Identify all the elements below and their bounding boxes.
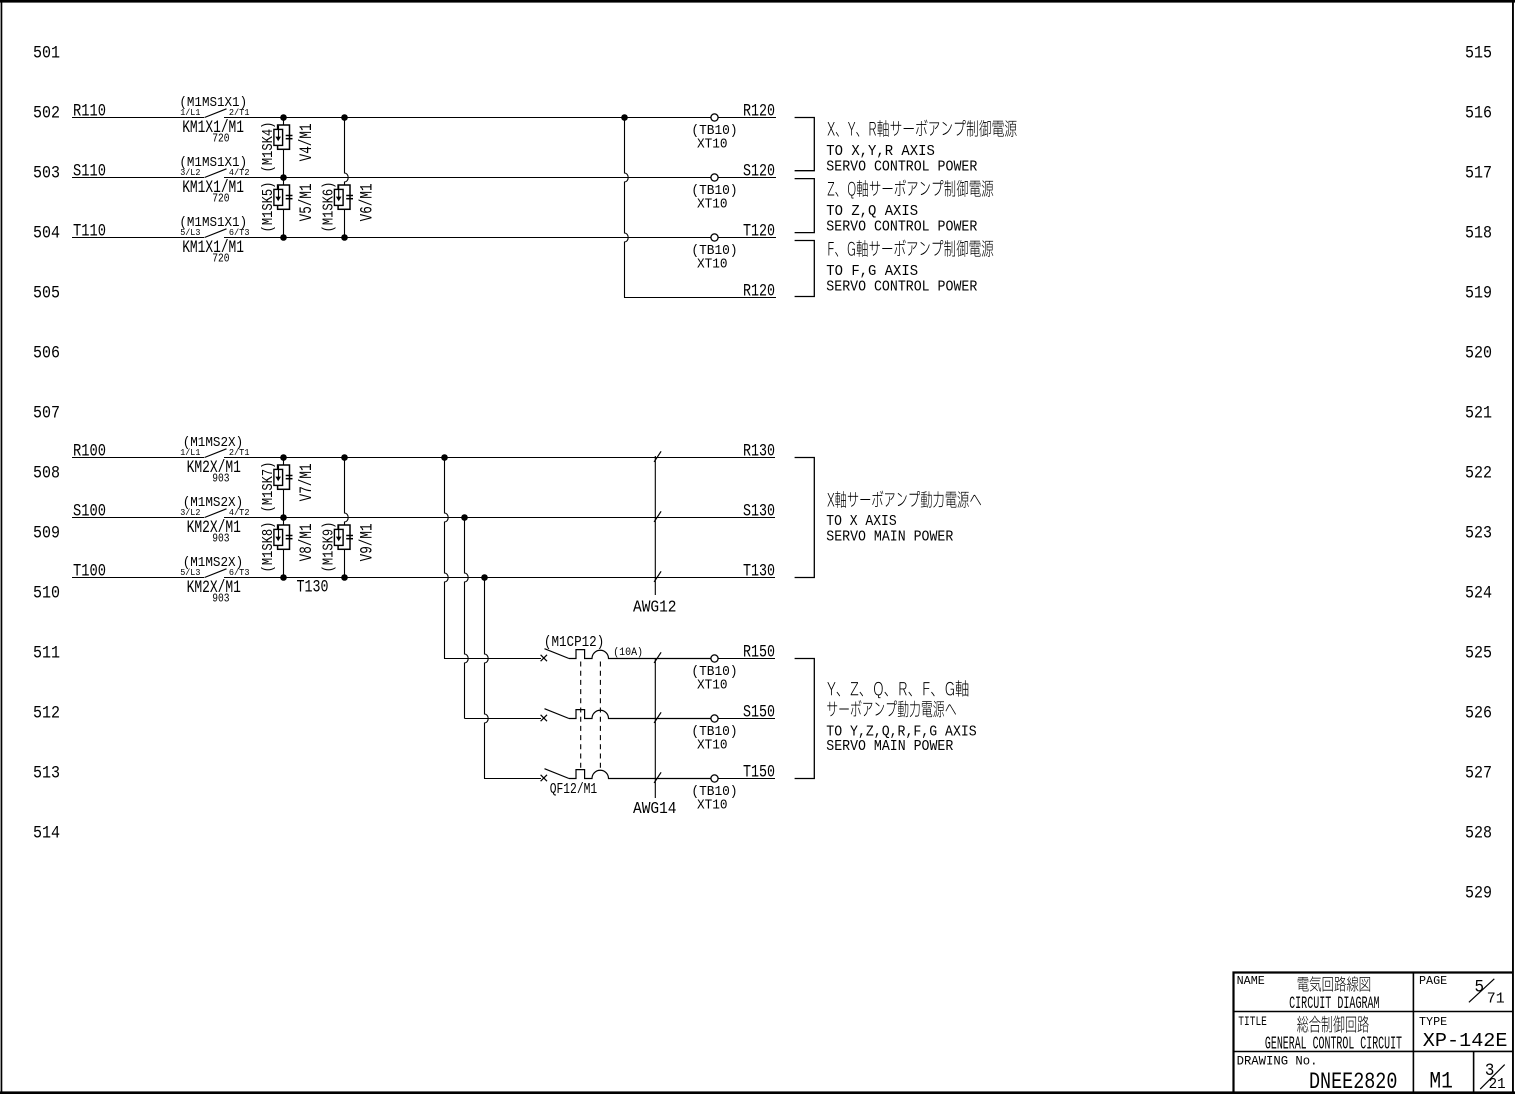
junction T100-V9 xyxy=(341,574,348,581)
wire S100 branch down to S150 xyxy=(465,518,469,719)
wire S100 to S130 xyxy=(72,503,775,522)
junction T100-T150 xyxy=(481,574,488,581)
svg-text:525: 525 xyxy=(1465,644,1492,664)
svg-text:TITLE: TITLE xyxy=(1238,1015,1267,1029)
svg-text:903: 903 xyxy=(212,473,229,486)
svg-text:AWG12: AWG12 xyxy=(633,598,677,617)
note F,G axis servo control power xyxy=(826,240,993,296)
svg-text:TO X,Y,R AXIS: TO X,Y,R AXIS xyxy=(826,143,935,160)
svg-text:V4/M1: V4/M1 xyxy=(298,123,317,161)
svg-text:521: 521 xyxy=(1465,404,1492,424)
wire T100 branch down to T150 xyxy=(485,578,489,779)
note X axis servo main power xyxy=(826,491,981,546)
wire R100 branch down to R150 xyxy=(445,458,449,659)
svg-text:XT10: XT10 xyxy=(697,137,728,153)
svg-text:522: 522 xyxy=(1465,464,1492,484)
junction R100-V9 xyxy=(341,454,348,461)
contactor contact KM2X/M1 pins 5/L3-6/T3 xyxy=(180,555,249,606)
svg-text:R120: R120 xyxy=(743,103,775,122)
svg-text:XT10: XT10 xyxy=(697,738,728,754)
junction S110-V4V5 xyxy=(280,174,287,181)
svg-text:T110: T110 xyxy=(73,223,106,242)
svg-text:S130: S130 xyxy=(743,503,775,522)
svg-text:XT10: XT10 xyxy=(697,257,728,273)
svg-text:PAGE: PAGE xyxy=(1419,974,1447,988)
breaker mechanical linkage dashed xyxy=(581,662,601,771)
svg-text:V8/M1: V8/M1 xyxy=(298,523,317,561)
wire T150 xyxy=(484,764,775,783)
svg-text:XT10: XT10 xyxy=(697,197,728,213)
svg-text:501: 501 xyxy=(33,44,60,64)
svg-text:508: 508 xyxy=(33,464,60,484)
svg-text:507: 507 xyxy=(33,404,60,424)
svg-text:(M1SK8): (M1SK8) xyxy=(261,522,277,573)
svg-text:R110: R110 xyxy=(73,103,106,122)
svg-text:R130: R130 xyxy=(743,443,775,462)
circuit breaker pole S xyxy=(541,709,711,722)
svg-text:511: 511 xyxy=(33,644,60,664)
surge suppressor M1SK6 / V6/M1 xyxy=(322,118,378,238)
svg-text:515: 515 xyxy=(1465,44,1492,64)
svg-text:T150: T150 xyxy=(743,764,775,783)
svg-text:V9/M1: V9/M1 xyxy=(359,523,378,561)
surge suppressor M1SK7 / V7/M1 xyxy=(261,457,317,517)
title block DRAWING No. cell DNEE2820 xyxy=(1237,1054,1398,1094)
svg-text:720: 720 xyxy=(212,193,229,206)
svg-text:R100: R100 xyxy=(73,443,106,462)
svg-text:513: 513 xyxy=(33,764,60,784)
title block frame xyxy=(1233,972,1512,1093)
contactor contact KM1X1/M1 pins 1/L1-2/T1 xyxy=(179,95,249,146)
svg-text:3/L2: 3/L2 xyxy=(180,167,200,178)
svg-text:2/T1: 2/T1 xyxy=(229,447,250,458)
svg-text:720: 720 xyxy=(212,133,229,146)
svg-text:505: 505 xyxy=(33,284,60,304)
svg-text:1/L1: 1/L1 xyxy=(180,107,201,118)
svg-text:TO X AXIS: TO X AXIS xyxy=(826,513,896,530)
svg-text:DNEE2820: DNEE2820 xyxy=(1309,1069,1397,1094)
svg-text:2/T1: 2/T1 xyxy=(229,107,250,118)
bracket X,Y,R axis group xyxy=(795,118,815,171)
bracket Z,Q axis group xyxy=(795,179,815,233)
wire R100 to R130 xyxy=(72,443,775,462)
svg-text:R120: R120 xyxy=(743,283,775,302)
wire T110 to T120 xyxy=(72,223,776,242)
svg-text:S110: S110 xyxy=(73,163,106,182)
terminal XT10 (TB10) xyxy=(691,655,737,694)
junction T100-V8 xyxy=(280,574,287,581)
contactor contact KM1X1/M1 pins 5/L3-6/T3 xyxy=(179,215,249,266)
note Z,Q axis servo control power xyxy=(826,180,993,236)
svg-text:514: 514 xyxy=(33,824,60,844)
svg-text:T130: T130 xyxy=(297,579,329,598)
surge suppressor M1SK8 / V8/M1 xyxy=(261,517,317,577)
surge suppressor M1SK9 / V9/M1 xyxy=(322,458,378,578)
junction T110-V5 xyxy=(280,234,287,241)
contactor contact KM1X1/M1 pins 3/L2-4/T2 xyxy=(179,155,249,206)
svg-text:71: 71 xyxy=(1487,991,1505,1008)
svg-text:(M1SK7): (M1SK7) xyxy=(261,462,277,513)
terminal XT10 (TB10) xyxy=(691,174,737,213)
svg-text:S150: S150 xyxy=(743,704,775,723)
svg-text:SERVO CONTROL POWER: SERVO CONTROL POWER xyxy=(826,159,977,176)
svg-text:517: 517 xyxy=(1465,164,1492,184)
wire S110 to S120 xyxy=(72,163,776,182)
svg-text:520: 520 xyxy=(1465,344,1492,364)
svg-text:518: 518 xyxy=(1465,224,1492,244)
svg-text:GENERAL CONTROL CIRCUIT: GENERAL CONTROL CIRCUIT xyxy=(1265,1033,1402,1055)
svg-text:4/T2: 4/T2 xyxy=(229,507,250,518)
bracket F,G axis group xyxy=(795,241,815,297)
svg-text:V5/M1: V5/M1 xyxy=(298,183,317,221)
wire R110 branch down to bottom R120 xyxy=(624,118,776,302)
svg-text:6/T3: 6/T3 xyxy=(229,567,250,578)
svg-text:SERVO MAIN POWER: SERVO MAIN POWER xyxy=(826,738,953,755)
junction S100-V7V8 xyxy=(280,514,287,521)
svg-text:509: 509 xyxy=(33,524,60,544)
terminal XT10 (TB10) xyxy=(691,775,737,814)
surge suppressor M1SK5 / V5/M1 xyxy=(261,177,317,237)
circuit breaker pole T xyxy=(541,769,711,798)
grid row labels 515-529 right margin xyxy=(1465,44,1492,904)
grid row labels 501-514 left margin xyxy=(33,44,60,844)
cable marker AWG12 xyxy=(633,451,677,616)
svg-text:DRAWING No.: DRAWING No. xyxy=(1237,1054,1318,1069)
svg-text:S120: S120 xyxy=(743,163,775,182)
terminal XT10 (TB10) xyxy=(691,234,737,273)
svg-text:528: 528 xyxy=(1465,824,1492,844)
title block TITLE cell xyxy=(1238,1015,1402,1055)
svg-text:524: 524 xyxy=(1465,584,1492,604)
svg-text:TO F,G AXIS: TO F,G AXIS xyxy=(826,263,918,280)
svg-text:526: 526 xyxy=(1465,704,1492,724)
svg-text:5/L3: 5/L3 xyxy=(180,227,200,238)
svg-text:5: 5 xyxy=(1475,977,1485,997)
title block PAGE cell 5/71 xyxy=(1419,974,1505,1008)
svg-text:AWG14: AWG14 xyxy=(633,799,677,818)
bracket Y,Z,Q,R,F,G axis main power group xyxy=(795,659,815,779)
svg-text:XP-142E: XP-142E xyxy=(1423,1030,1508,1052)
contactor contact KM2X/M1 pins 1/L1-2/T1 xyxy=(180,435,250,486)
junction T110-V6 xyxy=(341,234,348,241)
svg-text:T130: T130 xyxy=(743,563,775,582)
svg-text:519: 519 xyxy=(1465,284,1492,304)
cable marker AWG14 xyxy=(633,652,677,818)
bracket X axis main power group xyxy=(795,458,815,578)
svg-text:NAME: NAME xyxy=(1237,974,1265,988)
svg-text:4/T2: 4/T2 xyxy=(229,167,250,178)
junction R110-V6 xyxy=(341,114,348,121)
svg-text:(M1SK6): (M1SK6) xyxy=(322,182,338,233)
svg-text:TO Z,Q AXIS: TO Z,Q AXIS xyxy=(826,203,918,220)
svg-text:516: 516 xyxy=(1465,104,1492,124)
title block NAME cell xyxy=(1237,974,1380,1014)
svg-text:1/L1: 1/L1 xyxy=(180,447,201,458)
svg-text:5/L3: 5/L3 xyxy=(180,567,200,578)
svg-text:903: 903 xyxy=(212,533,229,546)
junction R100-V7 xyxy=(280,454,287,461)
svg-text:(M1CP12): (M1CP12) xyxy=(544,635,604,651)
wire T100 to T130 xyxy=(72,563,775,582)
svg-text:503: 503 xyxy=(33,164,60,184)
terminal XT10 (TB10) xyxy=(691,114,737,153)
svg-text:6/T3: 6/T3 xyxy=(229,227,250,238)
terminal XT10 (TB10) xyxy=(691,715,737,754)
junction R110-branch xyxy=(621,114,628,121)
svg-text:T100: T100 xyxy=(73,563,106,582)
circuit breaker QF12/M1 (M1CP12) 10A pole R xyxy=(541,635,711,661)
svg-text:3/L2: 3/L2 xyxy=(180,507,200,518)
svg-text:R150: R150 xyxy=(743,644,775,663)
svg-text:(M1SK4): (M1SK4) xyxy=(261,122,277,173)
svg-text:SERVO CONTROL POWER: SERVO CONTROL POWER xyxy=(826,279,977,296)
title block TYPE cell XP-142E xyxy=(1419,1015,1508,1052)
svg-text:XT10: XT10 xyxy=(697,678,728,694)
svg-text:529: 529 xyxy=(1465,884,1492,904)
svg-text:QF12/M1: QF12/M1 xyxy=(550,782,598,798)
junction R110-V4 xyxy=(280,114,287,121)
svg-text:(10A): (10A) xyxy=(613,647,643,659)
title block sheet 3/21 cell xyxy=(1480,1061,1505,1093)
svg-text:CIRCUIT DIAGRAM: CIRCUIT DIAGRAM xyxy=(1289,994,1380,1014)
svg-text:V6/M1: V6/M1 xyxy=(359,183,378,221)
wire R150 xyxy=(444,644,775,663)
note Y,Z,Q,R,F,G axis servo main power xyxy=(826,680,976,755)
svg-text:506: 506 xyxy=(33,344,60,364)
junction S100-S150 xyxy=(461,514,468,521)
svg-text:(M1SK5): (M1SK5) xyxy=(261,182,277,233)
svg-text:M1: M1 xyxy=(1429,1068,1453,1094)
svg-text:TYPE: TYPE xyxy=(1419,1015,1447,1029)
note X,Y,R axis servo control power xyxy=(826,120,1016,176)
svg-text:T120: T120 xyxy=(743,223,775,242)
svg-text:502: 502 xyxy=(33,104,60,124)
svg-text:21: 21 xyxy=(1489,1076,1506,1093)
svg-text:504: 504 xyxy=(33,224,60,244)
svg-text:XT10: XT10 xyxy=(697,798,728,814)
surge suppressor M1SK4 / V4/M1 xyxy=(261,117,317,177)
junction R100-R150 xyxy=(441,454,448,461)
svg-text:SERVO CONTROL POWER: SERVO CONTROL POWER xyxy=(826,219,977,236)
svg-text:523: 523 xyxy=(1465,524,1492,544)
svg-text:(M1SK9): (M1SK9) xyxy=(322,522,338,573)
svg-text:S100: S100 xyxy=(73,503,106,522)
svg-text:720: 720 xyxy=(212,253,229,266)
svg-text:903: 903 xyxy=(212,593,229,606)
wire R110 to R120 xyxy=(72,103,776,122)
wire S150 xyxy=(465,704,776,723)
svg-text:512: 512 xyxy=(33,704,60,724)
svg-text:527: 527 xyxy=(1465,764,1492,784)
svg-text:510: 510 xyxy=(33,584,60,604)
svg-text:SERVO MAIN POWER: SERVO MAIN POWER xyxy=(826,529,953,546)
svg-text:V7/M1: V7/M1 xyxy=(298,463,317,501)
contactor contact KM2X/M1 pins 3/L2-4/T2 xyxy=(180,495,249,546)
